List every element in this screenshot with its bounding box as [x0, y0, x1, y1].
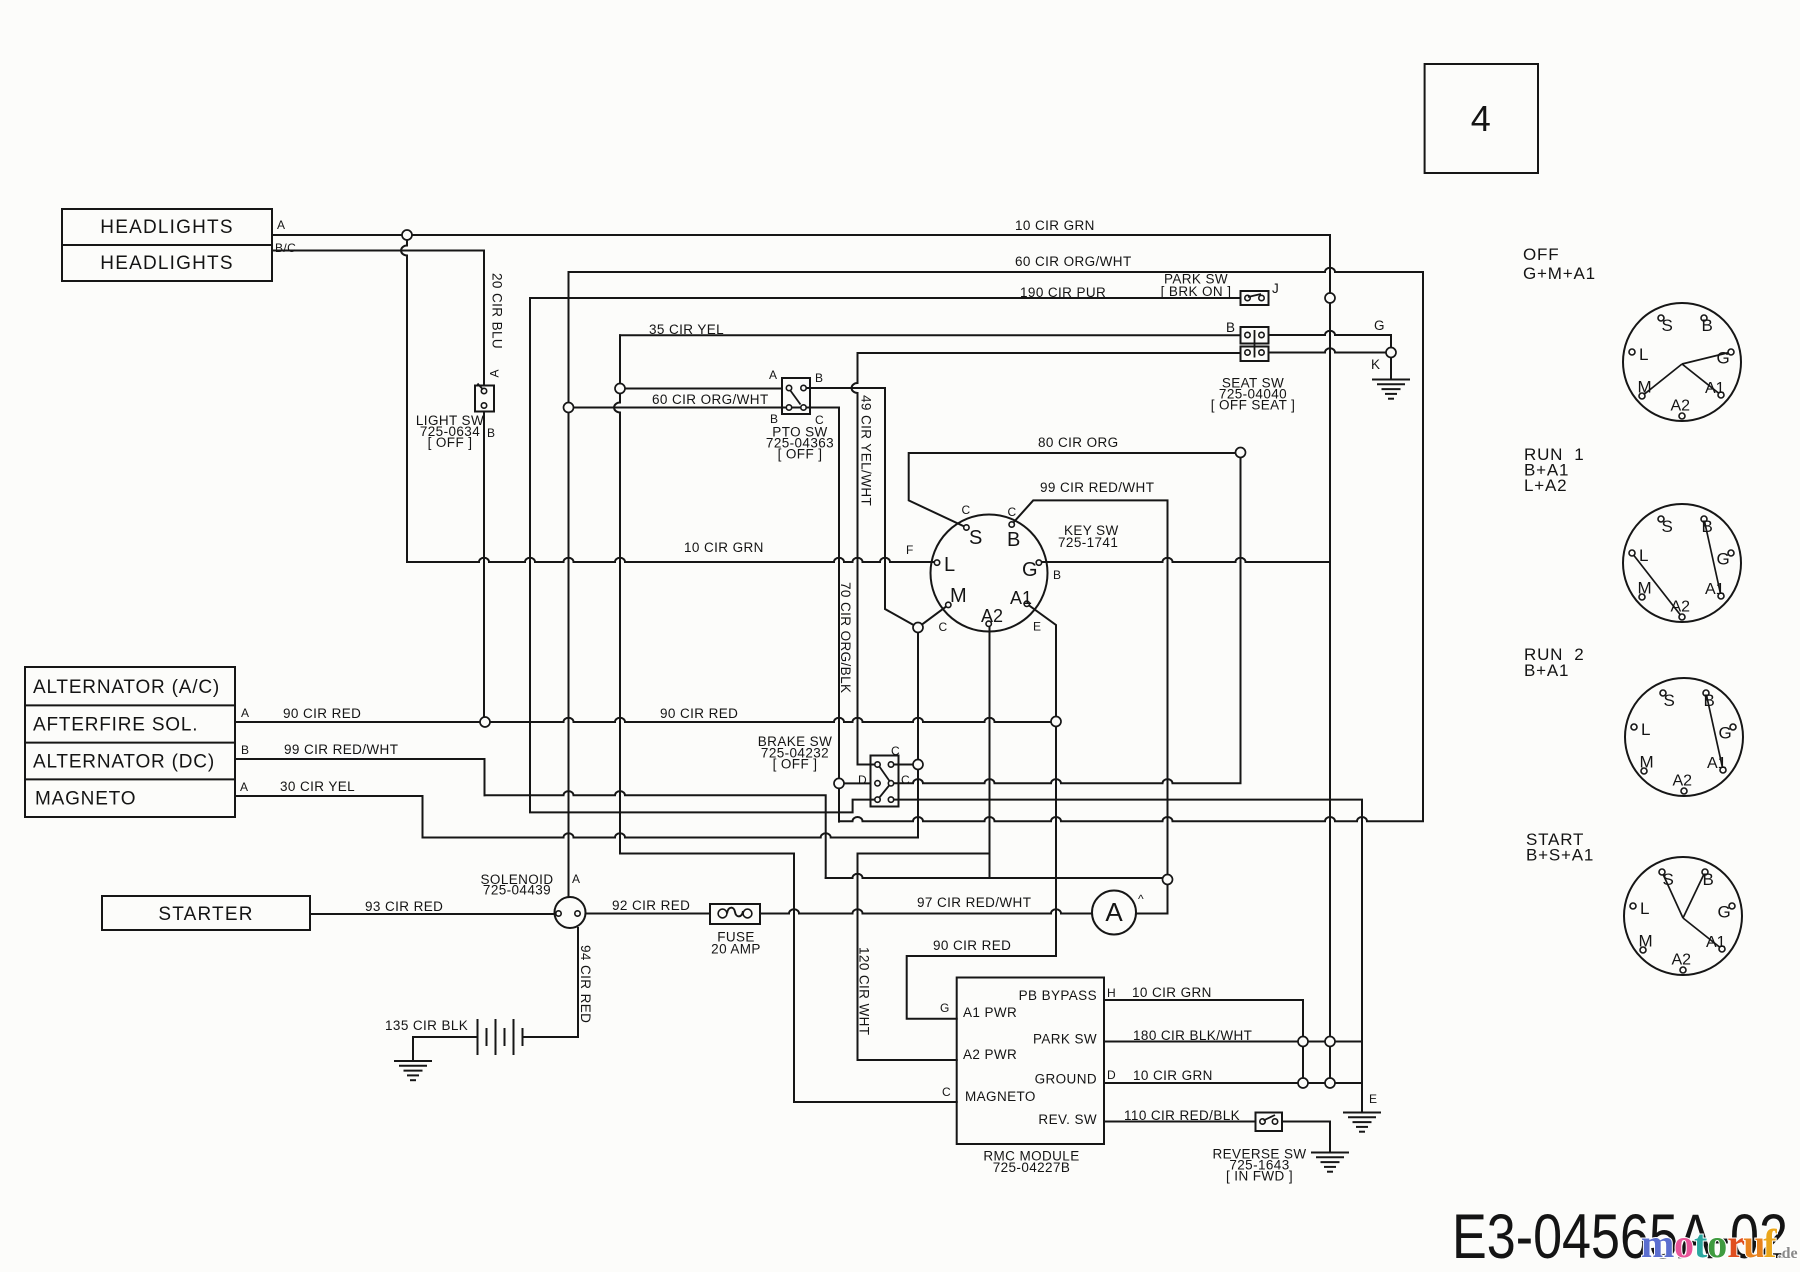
- svg-text:[ IN FWD ]: [ IN FWD ]: [1226, 1169, 1293, 1184]
- svg-text:A1: A1: [1706, 934, 1726, 951]
- svg-text:A1: A1: [1010, 588, 1032, 608]
- svg-text:OFF: OFF: [1523, 245, 1559, 264]
- svg-text:35 CIR YEL: 35 CIR YEL: [649, 322, 724, 337]
- svg-text:F: F: [906, 543, 914, 557]
- svg-text:B/C: B/C: [275, 241, 296, 255]
- svg-text:B: B: [487, 426, 495, 440]
- svg-text:4: 4: [1471, 98, 1491, 139]
- svg-text:90 CIR RED: 90 CIR RED: [283, 706, 361, 721]
- svg-text:A2: A2: [1671, 599, 1691, 616]
- svg-text:[ OFF ]: [ OFF ]: [773, 757, 818, 772]
- svg-text:725-04227B: 725-04227B: [993, 1160, 1071, 1175]
- svg-text:120 CIR WHT: 120 CIR WHT: [857, 947, 872, 1035]
- svg-text:A: A: [769, 368, 777, 382]
- svg-text:B: B: [1702, 517, 1713, 536]
- svg-text:m: m: [1641, 1221, 1674, 1266]
- svg-text:M: M: [1638, 579, 1652, 598]
- svg-text:99 CIR RED/WHT: 99 CIR RED/WHT: [284, 742, 398, 757]
- svg-text:f: f: [1763, 1221, 1777, 1266]
- svg-text:C: C: [1008, 505, 1017, 519]
- svg-text:B: B: [1703, 870, 1714, 889]
- svg-text:A: A: [240, 780, 248, 794]
- svg-text:G: G: [1719, 724, 1732, 743]
- svg-text:A2: A2: [981, 606, 1003, 626]
- svg-text:A1: A1: [1705, 581, 1725, 598]
- svg-text:[ BRK ON ]: [ BRK ON ]: [1161, 284, 1232, 299]
- svg-text:A: A: [488, 369, 502, 377]
- svg-text:J: J: [1272, 281, 1279, 296]
- svg-text:C: C: [942, 1085, 951, 1099]
- svg-text:B: B: [1053, 568, 1061, 582]
- svg-text:G+M+A1: G+M+A1: [1523, 264, 1596, 283]
- svg-text:M: M: [1638, 378, 1652, 397]
- svg-text:10 CIR GRN: 10 CIR GRN: [1132, 985, 1212, 1000]
- svg-text:HEADLIGHTS: HEADLIGHTS: [100, 217, 233, 238]
- svg-text:80 CIR ORG: 80 CIR ORG: [1038, 435, 1119, 450]
- svg-text:C: C: [962, 503, 971, 517]
- svg-text:^: ^: [1138, 892, 1144, 906]
- svg-text:AFTERFIRE SOL.: AFTERFIRE SOL.: [33, 715, 198, 736]
- svg-text:135 CIR BLK: 135 CIR BLK: [385, 1018, 468, 1033]
- svg-text:M: M: [1639, 932, 1653, 951]
- svg-text:90 CIR RED: 90 CIR RED: [933, 938, 1011, 953]
- svg-text:REV. SW: REV. SW: [1038, 1112, 1097, 1127]
- svg-text:E: E: [1033, 620, 1041, 634]
- svg-text:L: L: [944, 554, 955, 576]
- svg-text:B: B: [1226, 320, 1235, 335]
- svg-text:HEADLIGHTS: HEADLIGHTS: [100, 253, 233, 274]
- svg-text:ALTERNATOR (A/C): ALTERNATOR (A/C): [33, 677, 220, 698]
- svg-text:G: G: [1717, 550, 1730, 569]
- svg-text:ALTERNATOR (DC): ALTERNATOR (DC): [33, 752, 215, 773]
- svg-text:L: L: [1641, 720, 1650, 739]
- svg-text:20 AMP: 20 AMP: [711, 942, 761, 957]
- svg-text:725-04439: 725-04439: [483, 883, 551, 898]
- svg-text:A1 PWR: A1 PWR: [963, 1005, 1017, 1020]
- svg-text:L: L: [1639, 546, 1648, 565]
- svg-text:B: B: [241, 743, 249, 757]
- svg-text:20 CIR BLU: 20 CIR BLU: [490, 273, 505, 349]
- svg-text:190 CIR PUR: 190 CIR PUR: [1020, 285, 1106, 300]
- svg-text:A2: A2: [1672, 952, 1692, 969]
- svg-text:30 CIR YEL: 30 CIR YEL: [280, 779, 355, 794]
- svg-text:725-1741: 725-1741: [1058, 535, 1118, 550]
- svg-text:70 CIR ORG/BLK: 70 CIR ORG/BLK: [838, 582, 853, 693]
- svg-text:o: o: [1707, 1221, 1727, 1266]
- svg-text:L: L: [1640, 899, 1649, 918]
- svg-text:[ OFF SEAT ]: [ OFF SEAT ]: [1211, 398, 1296, 413]
- svg-text:M: M: [1640, 753, 1654, 772]
- svg-text:B: B: [1702, 316, 1713, 335]
- svg-text:10 CIR GRN: 10 CIR GRN: [1133, 1068, 1213, 1083]
- svg-text:D: D: [858, 773, 867, 787]
- svg-text:G: G: [940, 1001, 950, 1015]
- svg-text:STARTER: STARTER: [158, 904, 253, 925]
- svg-text:G: G: [1022, 559, 1038, 581]
- svg-text:u: u: [1743, 1221, 1765, 1266]
- svg-text:180 CIR BLK/WHT: 180 CIR BLK/WHT: [1133, 1028, 1252, 1043]
- svg-text:[ OFF ]: [ OFF ]: [778, 447, 823, 462]
- svg-text:A: A: [241, 706, 249, 720]
- svg-text:G: G: [1718, 903, 1731, 922]
- svg-text:A2 PWR: A2 PWR: [963, 1047, 1017, 1062]
- svg-text:60 CIR ORG/WHT: 60 CIR ORG/WHT: [1015, 254, 1132, 269]
- svg-text:MAGNETO: MAGNETO: [35, 789, 136, 810]
- svg-text:MAGNETO: MAGNETO: [965, 1089, 1036, 1104]
- svg-text:94 CIR RED: 94 CIR RED: [578, 945, 593, 1023]
- svg-text:10 CIR GRN: 10 CIR GRN: [684, 540, 764, 555]
- svg-text:A2: A2: [1671, 398, 1691, 415]
- svg-text:B: B: [1007, 529, 1020, 551]
- svg-text:H: H: [1107, 986, 1116, 1000]
- svg-text:99 CIR RED/WHT: 99 CIR RED/WHT: [1040, 480, 1154, 495]
- svg-text:110 CIR RED/BLK: 110 CIR RED/BLK: [1124, 1108, 1240, 1123]
- svg-text:C: C: [901, 773, 910, 787]
- svg-text:C: C: [891, 744, 900, 758]
- svg-text:92 CIR RED: 92 CIR RED: [612, 898, 690, 913]
- svg-text:60 CIR ORG/WHT: 60 CIR ORG/WHT: [652, 392, 769, 407]
- svg-text:S: S: [969, 527, 982, 549]
- svg-text:[ OFF ]: [ OFF ]: [428, 435, 473, 450]
- svg-text:M: M: [950, 585, 967, 607]
- svg-text:GROUND: GROUND: [1035, 1072, 1097, 1087]
- svg-text:A: A: [277, 218, 285, 232]
- svg-text:L+A2: L+A2: [1524, 476, 1567, 495]
- svg-text:G: G: [1374, 318, 1385, 333]
- svg-text:10 CIR GRN: 10 CIR GRN: [1015, 218, 1095, 233]
- svg-text:S: S: [1664, 691, 1675, 710]
- svg-text:90 CIR RED: 90 CIR RED: [660, 706, 738, 721]
- svg-text:S: S: [1663, 870, 1674, 889]
- svg-text:C: C: [939, 620, 948, 634]
- svg-text:t: t: [1694, 1221, 1708, 1266]
- svg-text:S: S: [1662, 517, 1673, 536]
- svg-text:49 CIR YEL/WHT: 49 CIR YEL/WHT: [859, 395, 874, 506]
- svg-text:A2: A2: [1673, 773, 1693, 790]
- svg-text:o: o: [1674, 1221, 1694, 1266]
- svg-text:B: B: [815, 371, 823, 385]
- svg-text:K: K: [1371, 357, 1380, 372]
- svg-text:E: E: [1369, 1092, 1377, 1106]
- svg-text:L: L: [1639, 345, 1648, 364]
- svg-text:D: D: [1107, 1068, 1116, 1082]
- svg-text:S: S: [1662, 316, 1673, 335]
- svg-text:.de: .de: [1778, 1245, 1798, 1262]
- svg-text:G: G: [1717, 349, 1730, 368]
- svg-text:A1: A1: [1707, 755, 1727, 772]
- svg-text:93 CIR RED: 93 CIR RED: [365, 899, 443, 914]
- svg-text:B+S+A1: B+S+A1: [1526, 846, 1594, 865]
- svg-text:PB BYPASS: PB BYPASS: [1019, 988, 1097, 1003]
- svg-text:PARK SW: PARK SW: [1033, 1032, 1097, 1047]
- svg-text:B+A1: B+A1: [1524, 661, 1569, 680]
- svg-text:B: B: [1704, 691, 1715, 710]
- svg-text:A: A: [572, 872, 580, 886]
- svg-text:A: A: [1105, 897, 1123, 927]
- svg-text:A1: A1: [1705, 380, 1725, 397]
- svg-text:97 CIR RED/WHT: 97 CIR RED/WHT: [917, 895, 1031, 910]
